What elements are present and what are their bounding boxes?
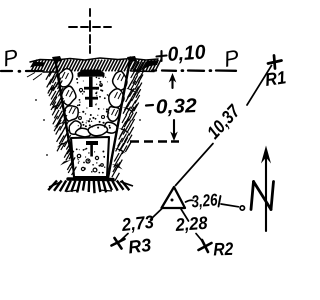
label R1 [264, 67, 288, 90]
svg-text:R2: R2 [213, 239, 234, 260]
north arrow [251, 146, 274, 232]
lower benchmark T-mark [86, 141, 98, 157]
ground surface hatch band [27, 58, 161, 80]
survey point R2 cross [199, 240, 212, 252]
pit left wall [55, 58, 75, 178]
tie line to R3 [121, 209, 163, 241]
triangulation station (triangle) [162, 187, 186, 208]
svg-text:0,32: 0,32 [155, 95, 197, 118]
distance label 10,37 [203, 100, 245, 143]
svg-text:2,28: 2,28 [174, 213, 208, 235]
distance label 2,73 [120, 212, 155, 235]
svg-text:R1: R1 [264, 67, 288, 90]
label P (right reference level) [222, 45, 241, 72]
elevation label -0,32 [146, 95, 197, 118]
label R2 [213, 239, 234, 260]
distance label 2,28 [174, 213, 208, 235]
label R3 [127, 235, 152, 258]
tie line to R2 [181, 209, 204, 243]
dimension arrow up (to P line) [169, 73, 177, 88]
tie line 3,26 to north arrow base [186, 196, 245, 210]
hatching under pit bottom [48, 181, 133, 194]
svg-text:R3: R3 [127, 235, 152, 258]
stone lining inside pit [59, 69, 127, 137]
centerline of monument (dash-dot cross) [69, 9, 111, 53]
upper benchmark anchor (T-mark) [78, 70, 105, 108]
concrete stipple (upper) [76, 68, 111, 129]
survey point R3 cross [112, 238, 125, 249]
excavation hatching around pit [35, 56, 146, 181]
label P (left reference level) [1, 44, 20, 71]
reference line P left (dash-dot) [1, 70, 42, 73]
pit bottom [68, 177, 113, 181]
elevation label +0,10 [157, 41, 207, 66]
svg-text:0,10: 0,10 [167, 41, 206, 66]
reference line P right (dash-dot) [152, 69, 236, 72]
survey point R1 cross [268, 56, 282, 69]
dimension arrow down (to mark level) [170, 120, 178, 141]
lower mark level line (dashed) [130, 140, 179, 143]
svg-text:2,73: 2,73 [120, 212, 155, 235]
svg-text:3,26: 3,26 [191, 190, 219, 211]
distance label 3,26 [191, 190, 219, 211]
pit right wall [108, 58, 131, 179]
lower monument block [71, 137, 109, 177]
distance line to R1 [176, 66, 272, 186]
